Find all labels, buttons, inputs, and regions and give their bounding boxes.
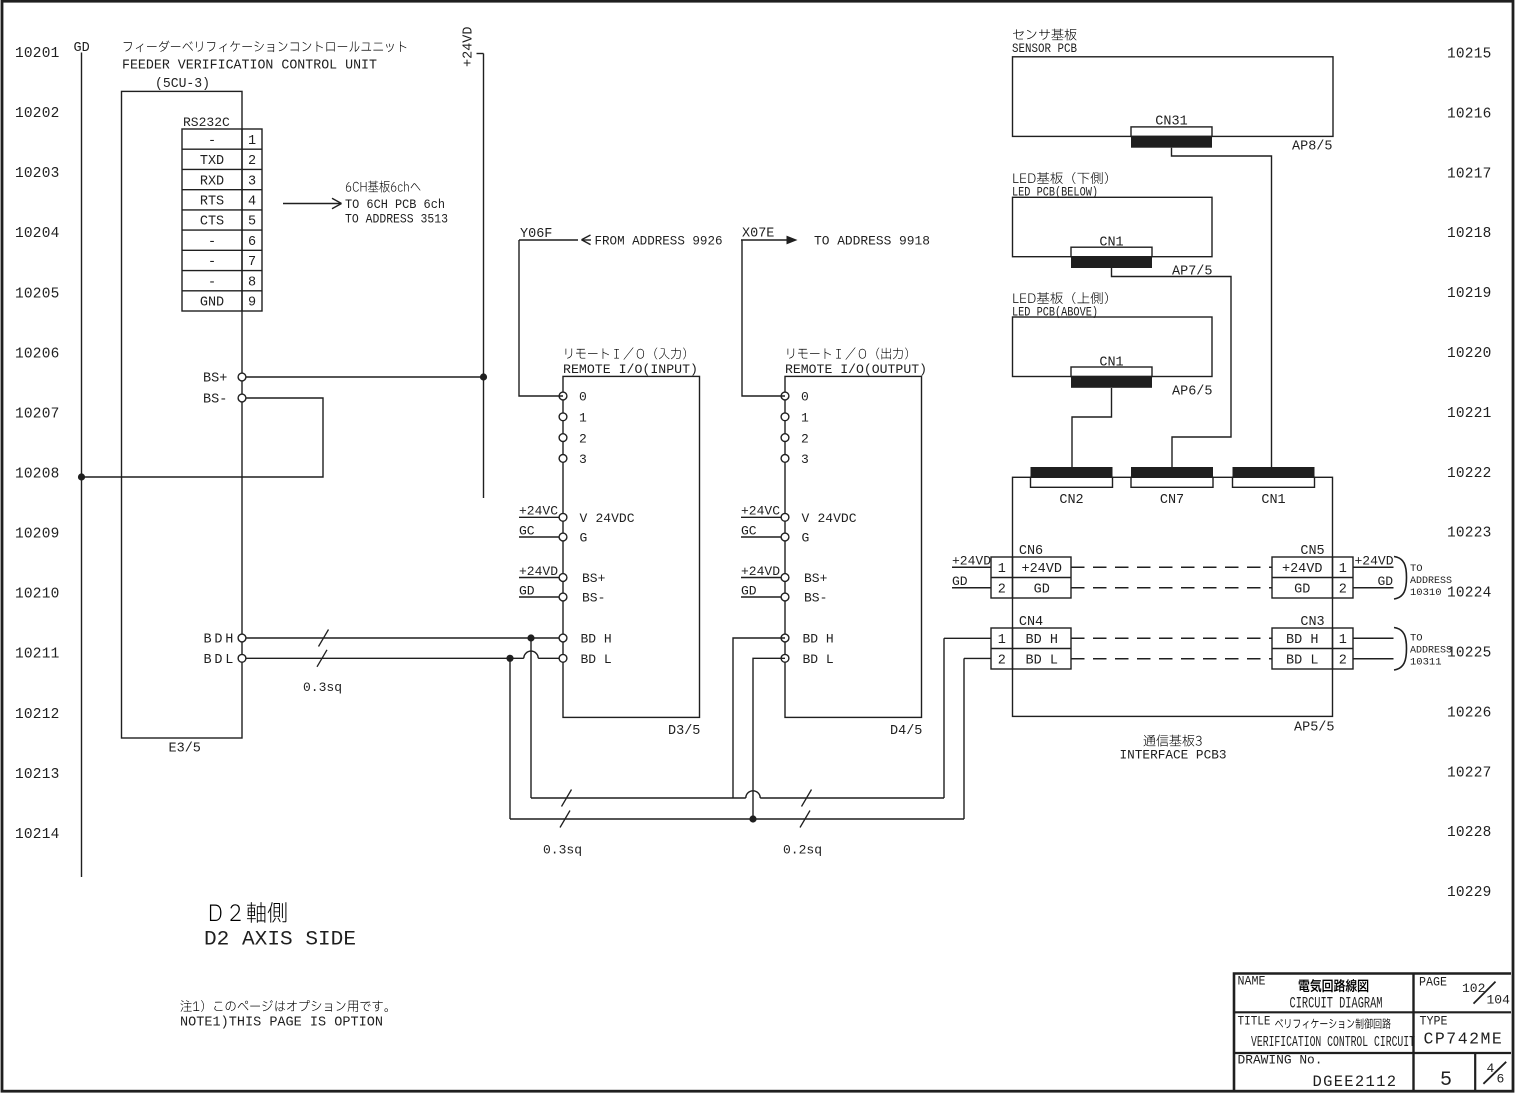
svg-text:VERIFICATION CONTROL CIRCUIT: VERIFICATION CONTROL CIRCUIT — [1251, 1035, 1415, 1051]
svg-text:24VDC: 24VDC — [596, 511, 635, 526]
svg-text:5: 5 — [248, 215, 256, 230]
svg-text:(5CU-3): (5CU-3) — [155, 77, 210, 92]
svg-text:GD: GD — [1294, 582, 1310, 597]
svg-text:+24VD: +24VD — [1021, 562, 1062, 577]
svg-text:2: 2 — [998, 653, 1006, 668]
svg-text:X07E: X07E — [742, 227, 774, 242]
svg-text:GC: GC — [519, 523, 535, 538]
svg-text:6: 6 — [248, 235, 256, 250]
svg-text:BD H: BD H — [1026, 633, 1058, 648]
svg-text:1: 1 — [998, 562, 1006, 577]
svg-text:10207: 10207 — [15, 406, 60, 422]
svg-text:10216: 10216 — [1447, 106, 1492, 122]
svg-text:-: - — [208, 134, 216, 149]
svg-text:ADDRESS: ADDRESS — [1410, 575, 1452, 587]
svg-text:-: - — [208, 255, 216, 270]
svg-text:10219: 10219 — [1447, 286, 1492, 302]
svg-text:2: 2 — [1339, 653, 1347, 668]
svg-text:10210: 10210 — [15, 587, 60, 603]
svg-text:SENSOR PCB: SENSOR PCB — [1012, 41, 1077, 56]
svg-text:CN3: CN3 — [1300, 615, 1324, 630]
svg-text:GD: GD — [1378, 574, 1394, 589]
svg-text:10228: 10228 — [1447, 825, 1492, 841]
svg-text:TO ADDRESS 9918: TO ADDRESS 9918 — [814, 234, 930, 249]
svg-text:10215: 10215 — [1447, 47, 1492, 63]
svg-text:10222: 10222 — [1447, 466, 1492, 482]
svg-text:+24VD: +24VD — [952, 553, 991, 568]
svg-text:10203: 10203 — [15, 166, 60, 182]
svg-text:AP5/5: AP5/5 — [1294, 721, 1335, 736]
svg-text:GD: GD — [1034, 582, 1050, 597]
svg-text:BD H: BD H — [803, 632, 834, 647]
svg-text:10208: 10208 — [15, 466, 60, 482]
svg-text:BD H: BD H — [1286, 633, 1318, 648]
svg-text:BD L: BD L — [1286, 653, 1318, 668]
svg-text:2: 2 — [1339, 582, 1347, 597]
svg-text:BD L: BD L — [581, 652, 612, 667]
svg-text:TO: TO — [1410, 633, 1423, 645]
svg-text:BS-: BS- — [804, 591, 827, 606]
svg-text:10213: 10213 — [15, 767, 60, 783]
svg-text:8: 8 — [248, 275, 256, 290]
svg-text:10204: 10204 — [15, 226, 60, 242]
svg-text:BS+: BS+ — [582, 571, 606, 586]
svg-text:CN6: CN6 — [1019, 544, 1043, 559]
svg-text:CIRCUIT DIAGRAM: CIRCUIT DIAGRAM — [1290, 994, 1383, 1012]
svg-text:10211: 10211 — [15, 647, 60, 663]
svg-text:INTERFACE PCB3: INTERFACE PCB3 — [1120, 748, 1227, 763]
svg-text:DGEE2112: DGEE2112 — [1313, 1073, 1398, 1091]
svg-text:10218: 10218 — [1447, 226, 1492, 242]
svg-text:V: V — [580, 511, 588, 526]
svg-text:REMOTE I/O(INPUT): REMOTE I/O(INPUT) — [563, 362, 698, 377]
svg-text:6: 6 — [1497, 1072, 1505, 1087]
svg-text:TXD: TXD — [200, 154, 224, 169]
svg-text:BS-: BS- — [203, 393, 227, 408]
svg-text:CN2: CN2 — [1059, 493, 1083, 508]
svg-text:GD: GD — [519, 583, 535, 598]
svg-text:9: 9 — [248, 296, 256, 311]
svg-text:+24VC: +24VC — [519, 504, 558, 519]
svg-text:CTS: CTS — [200, 215, 224, 230]
svg-text:1: 1 — [998, 633, 1006, 648]
svg-text:G: G — [802, 531, 810, 546]
svg-text:AP8/5: AP8/5 — [1292, 140, 1333, 155]
svg-text:2: 2 — [248, 154, 256, 169]
svg-text:+24VD: +24VD — [519, 564, 558, 579]
svg-text:FROM ADDRESS 9926: FROM ADDRESS 9926 — [595, 234, 723, 249]
svg-text:+24VC: +24VC — [741, 504, 780, 519]
svg-text:104: 104 — [1487, 993, 1511, 1008]
svg-text:AP7/5: AP7/5 — [1172, 265, 1213, 280]
svg-text:2: 2 — [801, 431, 809, 446]
svg-text:BD L: BD L — [803, 652, 834, 667]
svg-text:CN5: CN5 — [1300, 544, 1324, 559]
svg-text:TITLE: TITLE — [1238, 1015, 1271, 1029]
svg-text:ADDRESS: ADDRESS — [1410, 645, 1452, 657]
svg-text:BS-: BS- — [582, 591, 605, 606]
svg-text:REMOTE I/O(OUTPUT): REMOTE I/O(OUTPUT) — [785, 362, 927, 377]
svg-text:24VDC: 24VDC — [818, 511, 857, 526]
svg-text:RTS: RTS — [200, 194, 224, 209]
svg-text:10212: 10212 — [15, 707, 60, 723]
svg-text:0: 0 — [579, 390, 587, 405]
svg-text:NAME: NAME — [1238, 975, 1266, 989]
svg-text:10225: 10225 — [1447, 646, 1492, 662]
svg-text:BS+: BS+ — [203, 372, 227, 387]
svg-text:10311: 10311 — [1410, 657, 1442, 669]
svg-text:V: V — [802, 511, 810, 526]
svg-text:DRAWING No.: DRAWING No. — [1238, 1054, 1323, 1068]
svg-text:BD H: BD H — [581, 632, 612, 647]
svg-text:-: - — [208, 275, 216, 290]
svg-text:CN4: CN4 — [1019, 615, 1043, 630]
svg-text:10221: 10221 — [1447, 406, 1492, 422]
svg-text:3: 3 — [579, 452, 587, 467]
svg-text:BD L: BD L — [1026, 653, 1058, 668]
svg-text:10206: 10206 — [15, 346, 60, 362]
svg-text:D2 AXIS SIDE: D2 AXIS SIDE — [204, 929, 356, 952]
svg-text:+24VD: +24VD — [462, 26, 477, 67]
svg-text:1: 1 — [579, 411, 587, 426]
svg-text:1: 1 — [801, 411, 809, 426]
svg-text:GC: GC — [741, 523, 757, 538]
svg-text:10227: 10227 — [1447, 765, 1492, 781]
svg-text:0: 0 — [801, 390, 809, 405]
svg-text:G: G — [580, 531, 588, 546]
svg-text:BDH: BDH — [204, 633, 237, 648]
svg-text:D4/5: D4/5 — [890, 724, 922, 739]
svg-text:+24VD: +24VD — [1282, 562, 1323, 577]
svg-text:1: 1 — [248, 134, 256, 149]
svg-text:10201: 10201 — [15, 46, 60, 62]
svg-text:10229: 10229 — [1447, 885, 1492, 901]
svg-text:TO 6CH PCB 6ch: TO 6CH PCB 6ch — [345, 198, 445, 212]
svg-text:GND: GND — [200, 296, 224, 311]
svg-text:10205: 10205 — [15, 286, 60, 302]
svg-text:2: 2 — [579, 431, 587, 446]
svg-text:1: 1 — [1339, 633, 1347, 648]
svg-text:CN1: CN1 — [1261, 493, 1285, 508]
svg-text:FEEDER VERIFICATION CONTROL UN: FEEDER VERIFICATION CONTROL UNIT — [122, 59, 377, 74]
svg-text:10209: 10209 — [15, 527, 60, 543]
svg-text:4: 4 — [248, 194, 256, 209]
svg-text:RXD: RXD — [200, 174, 224, 189]
svg-text:3: 3 — [248, 174, 256, 189]
svg-text:10214: 10214 — [15, 827, 60, 843]
svg-text:CN7: CN7 — [1160, 493, 1184, 508]
svg-text:GD: GD — [952, 574, 968, 589]
svg-text:TO ADDRESS 3513: TO ADDRESS 3513 — [345, 213, 448, 227]
svg-text:D3/5: D3/5 — [668, 724, 700, 739]
svg-text:+24VD: +24VD — [741, 564, 780, 579]
svg-text:2: 2 — [998, 582, 1006, 597]
svg-text:E3/5: E3/5 — [169, 742, 201, 757]
svg-text:GD: GD — [741, 583, 757, 598]
svg-text:RS232C: RS232C — [183, 115, 230, 130]
svg-text:CN1: CN1 — [1099, 235, 1123, 250]
svg-text:102: 102 — [1462, 981, 1485, 996]
svg-text:0.2sq: 0.2sq — [783, 843, 822, 858]
svg-text:CP742ME: CP742ME — [1424, 1029, 1504, 1048]
svg-text:TYPE: TYPE — [1420, 1015, 1448, 1029]
svg-text:CN1: CN1 — [1099, 355, 1123, 370]
svg-text:0.3sq: 0.3sq — [303, 680, 342, 695]
svg-text:0.3sq: 0.3sq — [543, 843, 582, 858]
svg-text:BS+: BS+ — [804, 571, 828, 586]
svg-text:7: 7 — [248, 255, 256, 270]
svg-text:TO: TO — [1410, 563, 1423, 575]
svg-text:10220: 10220 — [1447, 346, 1492, 362]
svg-text:AP6/5: AP6/5 — [1172, 384, 1213, 399]
svg-text:3: 3 — [801, 452, 809, 467]
svg-text:1: 1 — [1339, 562, 1347, 577]
svg-text:5: 5 — [1440, 1069, 1452, 1092]
svg-text:10310: 10310 — [1410, 587, 1442, 599]
svg-text:10226: 10226 — [1447, 705, 1492, 721]
svg-text:10217: 10217 — [1447, 166, 1492, 182]
svg-text:10202: 10202 — [15, 106, 60, 122]
svg-text:10223: 10223 — [1447, 526, 1492, 542]
svg-text:NOTE1)THIS PAGE IS OPTION: NOTE1)THIS PAGE IS OPTION — [180, 1016, 383, 1031]
svg-text:10224: 10224 — [1447, 586, 1492, 602]
svg-text:BDL: BDL — [204, 653, 237, 668]
svg-text:+24VD: +24VD — [1355, 553, 1394, 568]
svg-text:PAGE: PAGE — [1419, 976, 1447, 990]
svg-text:-: - — [208, 235, 216, 250]
